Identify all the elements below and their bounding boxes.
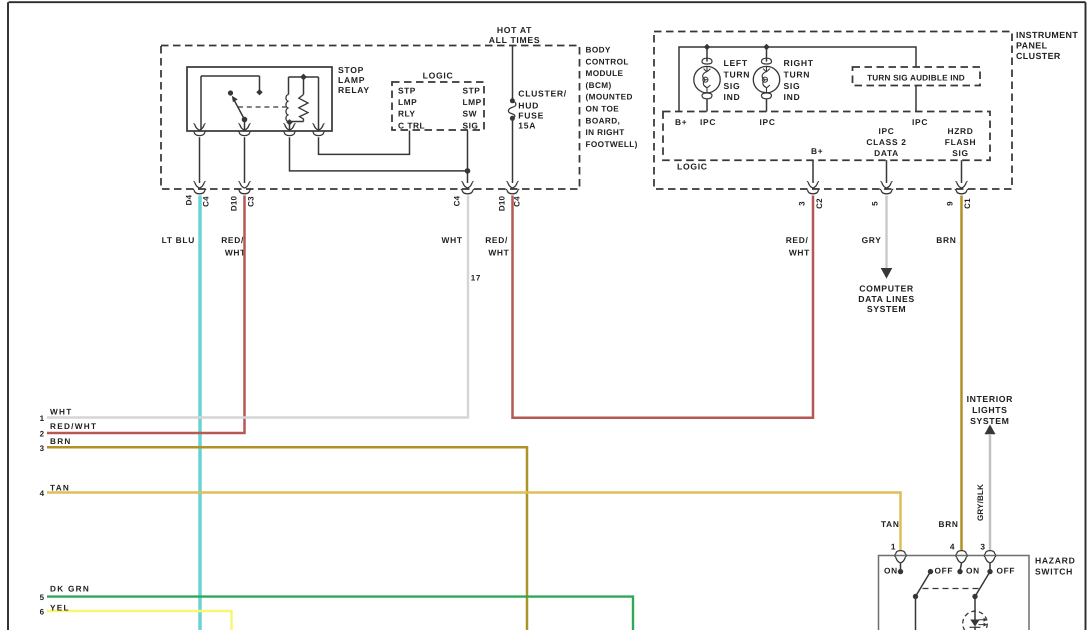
svg-text:COMPUTER: COMPUTER (859, 283, 914, 293)
svg-text:LMP: LMP (398, 97, 417, 107)
svg-text:LAMP: LAMP (338, 75, 365, 85)
svg-text:IPC: IPC (912, 117, 928, 127)
svg-text:C3: C3 (247, 196, 256, 207)
svg-text:HUD: HUD (518, 101, 539, 111)
svg-text:SIG: SIG (724, 81, 741, 91)
svg-text:HAZARD: HAZARD (1035, 556, 1075, 566)
svg-text:OFF: OFF (997, 565, 1016, 575)
svg-text:BRN: BRN (936, 235, 956, 245)
svg-text:SW: SW (463, 109, 478, 119)
svg-text:D10: D10 (230, 196, 239, 212)
svg-text:15A: 15A (518, 121, 536, 131)
svg-text:CLUSTER: CLUSTER (1016, 51, 1061, 61)
svg-text:CLASS 2: CLASS 2 (866, 137, 906, 147)
svg-text:C2: C2 (815, 198, 824, 209)
svg-text:PANEL: PANEL (1016, 40, 1048, 50)
svg-text:BRN: BRN (939, 519, 959, 529)
svg-text:IPC: IPC (878, 126, 894, 136)
svg-text:STOP: STOP (338, 65, 364, 75)
svg-text:INSTRUMENT: INSTRUMENT (1016, 30, 1078, 40)
svg-text:WHT: WHT (225, 247, 246, 257)
svg-text:4: 4 (950, 542, 955, 552)
svg-text:RED/WHT: RED/WHT (50, 422, 97, 431)
svg-text:RED/: RED/ (786, 235, 809, 245)
svg-text:LOGIC: LOGIC (423, 71, 454, 81)
svg-text:RIGHT: RIGHT (784, 58, 814, 68)
svg-text:SIG: SIG (784, 81, 801, 91)
svg-text:4: 4 (40, 489, 45, 498)
svg-text:LOGIC: LOGIC (677, 162, 708, 172)
svg-text:SWITCH: SWITCH (1035, 567, 1073, 577)
svg-text:IND: IND (784, 92, 801, 102)
svg-text:9: 9 (946, 201, 955, 206)
svg-text:WHT: WHT (442, 235, 463, 245)
svg-text:2: 2 (40, 430, 45, 439)
svg-text:C1: C1 (963, 198, 972, 209)
svg-text:3: 3 (798, 201, 807, 206)
svg-text:CONTROL: CONTROL (586, 57, 629, 66)
svg-text:WHT: WHT (789, 247, 810, 257)
svg-text:HOT AT: HOT AT (497, 25, 532, 35)
svg-text:CLUSTER/: CLUSTER/ (518, 89, 567, 99)
svg-text:DK GRN: DK GRN (50, 584, 90, 593)
svg-text:TAN: TAN (50, 484, 70, 493)
svg-text:RELAY: RELAY (338, 85, 370, 95)
svg-text:(MOUNTED: (MOUNTED (586, 93, 633, 102)
svg-text:IPC: IPC (760, 117, 776, 127)
svg-text:3: 3 (980, 542, 985, 552)
svg-text:TURN: TURN (724, 70, 751, 80)
svg-text:ON TOE: ON TOE (586, 105, 620, 114)
svg-text:1: 1 (40, 414, 45, 423)
svg-text:TURN SIG AUDIBLE IND: TURN SIG AUDIBLE IND (867, 74, 965, 83)
svg-text:RED/: RED/ (485, 235, 508, 245)
svg-text:SYSTEM: SYSTEM (867, 304, 906, 314)
svg-text:BOARD,: BOARD, (586, 116, 621, 125)
svg-text:D10: D10 (498, 196, 507, 212)
svg-text:DATA LINES: DATA LINES (858, 294, 915, 304)
svg-text:C4: C4 (453, 195, 462, 206)
svg-text:IND: IND (724, 92, 741, 102)
svg-text:IN RIGHT: IN RIGHT (586, 128, 625, 137)
svg-text:B+: B+ (811, 146, 823, 156)
svg-text:MODULE: MODULE (586, 69, 624, 78)
svg-text:6: 6 (40, 608, 45, 617)
svg-text:WHT: WHT (50, 407, 73, 416)
svg-text:ON: ON (966, 565, 980, 575)
svg-text:BODY: BODY (586, 46, 611, 55)
svg-text:YEL: YEL (50, 603, 70, 612)
svg-text:TAN: TAN (881, 519, 900, 529)
svg-text:FUSE: FUSE (518, 111, 544, 121)
svg-text:STP: STP (398, 86, 416, 96)
svg-text:IPC: IPC (700, 117, 716, 127)
svg-text:BRN: BRN (50, 437, 72, 446)
svg-text:ON: ON (884, 565, 898, 575)
svg-text:HZRD: HZRD (947, 126, 973, 136)
svg-text:LIGHTS: LIGHTS (972, 405, 1007, 415)
svg-text:INTERIOR: INTERIOR (967, 394, 1013, 404)
svg-text:17: 17 (471, 273, 481, 282)
svg-text:5: 5 (871, 201, 880, 206)
svg-text:STP: STP (463, 86, 481, 96)
svg-text:C TRL: C TRL (398, 120, 425, 130)
svg-text:LMP: LMP (463, 97, 482, 107)
svg-text:1: 1 (891, 542, 896, 552)
svg-text:RLY: RLY (398, 109, 415, 119)
svg-text:SIG: SIG (952, 148, 969, 158)
svg-text:FLASH: FLASH (945, 137, 976, 147)
svg-text:TURN: TURN (784, 70, 811, 80)
svg-text:(BCM): (BCM) (586, 81, 612, 90)
svg-text:C4: C4 (202, 196, 211, 207)
svg-text:LT BLU: LT BLU (162, 235, 195, 245)
svg-text:3: 3 (40, 444, 45, 453)
svg-text:C4: C4 (513, 196, 522, 207)
svg-text:ALL TIMES: ALL TIMES (489, 35, 541, 45)
svg-text:OFF: OFF (935, 565, 954, 575)
svg-text:B+: B+ (675, 117, 687, 127)
svg-text:SIG: SIG (463, 120, 479, 130)
svg-text:D4: D4 (185, 194, 194, 205)
svg-text:WHT: WHT (488, 247, 509, 257)
svg-text:GRY/BLK: GRY/BLK (976, 484, 985, 521)
svg-text:SYSTEM: SYSTEM (970, 416, 1009, 426)
svg-text:GRY: GRY (862, 235, 882, 245)
svg-text:5: 5 (40, 593, 45, 602)
svg-text:RED/: RED/ (221, 235, 244, 245)
svg-text:FOOTWELL): FOOTWELL) (586, 140, 638, 149)
svg-text:DATA: DATA (874, 148, 899, 158)
svg-text:LEFT: LEFT (724, 58, 748, 68)
